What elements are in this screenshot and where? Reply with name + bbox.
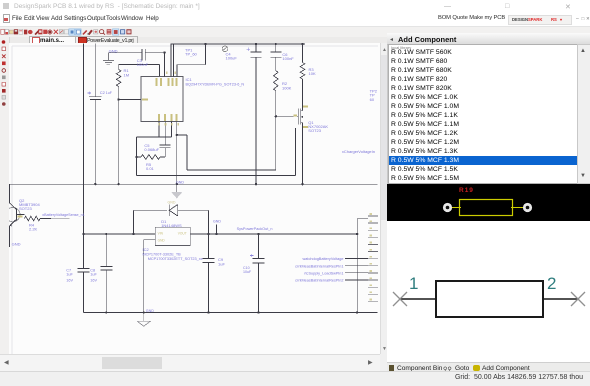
- footprint pad wire left: [451, 207, 461, 209]
- footprint pad wire right: [511, 207, 524, 209]
- net stub GND: [216, 225, 218, 235]
- capacitor C6: [270, 44, 281, 71]
- tab bar: [0, 37, 590, 44]
- toolbar: [0, 26, 590, 38]
- wire bottom rail: [83, 312, 377, 314]
- svg-text:10K: 10K: [309, 71, 316, 76]
- black pcb preview: [387, 184, 590, 221]
- svg-text:100K: 100K: [282, 85, 292, 90]
- panel bottom tabs: [387, 362, 590, 374]
- svg-text:0.01: 0.01: [146, 166, 155, 171]
- pin 2 wire: [543, 298, 579, 300]
- svg-text:0.068uF: 0.068uF: [144, 147, 159, 152]
- pad 2: [523, 203, 532, 212]
- wire vertical V2: [94, 44, 96, 185]
- IC1 left pin: [119, 99, 141, 101]
- svg-text:SysPowerPackOut_n: SysPowerPackOut_n: [237, 227, 273, 231]
- svg-text:R19: R19: [459, 187, 474, 194]
- capacitor C5: [160, 145, 171, 148]
- svg-text:1: 1: [409, 274, 418, 293]
- connector J1 pins: [368, 216, 378, 301]
- svg-text:GND: GND: [168, 201, 176, 205]
- pin 1 end cross: [393, 292, 407, 306]
- svg-text:IC2: IC2: [143, 247, 150, 252]
- svg-text:10uF: 10uF: [243, 270, 252, 274]
- IC2 body: [155, 227, 190, 245]
- symbol preview: [387, 221, 590, 362]
- svg-text:xChargerVoltageIn: xChargerVoltageIn: [342, 149, 375, 154]
- capacitor C8: [100, 234, 112, 313]
- svg-text:GND: GND: [12, 241, 21, 246]
- status bar: [0, 371, 590, 386]
- svg-text:GND: GND: [176, 180, 184, 184]
- svg-text:GND: GND: [213, 219, 221, 223]
- capacitor C4 polarized: [251, 44, 262, 184]
- svg-text:2.2K: 2.2K: [29, 227, 38, 232]
- resistor R3: [300, 63, 305, 80]
- resistor body: [436, 281, 543, 317]
- wire sense loop: [137, 137, 172, 176]
- svg-text:BQ2947XYDBVR-PG_SOT23-6_N: BQ2947XYDBVR-PG_SOT23-6_N: [186, 82, 245, 86]
- capacitor C10 polarized: [253, 234, 265, 313]
- svg-text:xBatteryVoltageSense_n1: xBatteryVoltageSense_n1: [42, 213, 84, 217]
- svg-text:2: 2: [547, 274, 556, 293]
- svg-text:1uF: 1uF: [90, 273, 97, 277]
- svg-text:MCP1700T3302ETT_SOT23_xx: MCP1700T3302ETT_SOT23_xx: [148, 257, 203, 261]
- svg-text:1N4148WS: 1N4148WS: [161, 223, 182, 228]
- footprint body: [460, 200, 513, 216]
- wire rail2: [83, 233, 358, 235]
- diode D1: [133, 210, 208, 234]
- wire IC2 gnd pin: [144, 239, 156, 312]
- svg-text:GND: GND: [109, 49, 118, 54]
- svg-text:SOT23: SOT23: [19, 206, 32, 211]
- svg-text:1uF: 1uF: [218, 261, 225, 266]
- svg-text:16V: 16V: [66, 279, 73, 283]
- testpoint TP1 circle: [222, 46, 228, 52]
- svg-text:1uF: 1uF: [66, 273, 73, 277]
- IC1 bottom pins: [159, 122, 177, 185]
- svg-text:TP_60: TP_60: [185, 52, 198, 57]
- h scrollbar: [0, 354, 380, 372]
- connector pin pads: [369, 213, 372, 300]
- ground G1 flat bars: [103, 53, 114, 65]
- svg-text:VIN: VIN: [158, 231, 164, 235]
- capacitor C1 series plates: [142, 49, 145, 61]
- title bar: [0, 0, 590, 11]
- transistor Q2 bjt: [6, 207, 20, 221]
- IC1 body: [141, 77, 183, 122]
- svg-text:VOUT: VOUT: [178, 231, 187, 235]
- canvas: [9, 43, 380, 354]
- canvas v scrollbar: [380, 43, 388, 354]
- svg-text:60: 60: [370, 97, 375, 102]
- svg-text:C2: C2: [100, 90, 106, 95]
- resistor R5 shunt: [141, 155, 160, 160]
- capacitor C7 plates: [77, 268, 89, 272]
- left vertical toolbar: [0, 37, 10, 354]
- svg-text:16V: 16V: [90, 279, 97, 283]
- svg-text:1uF: 1uF: [106, 91, 113, 95]
- capacitor C9: [203, 234, 215, 313]
- menu bar: [0, 11, 590, 26]
- ground G2 arrow: [176, 184, 178, 192]
- wire vertical V1 battery net: [82, 44, 84, 313]
- transistor Q1 mosfet: [276, 106, 303, 185]
- connector net wires: [345, 259, 368, 280]
- svg-text:SOT23: SOT23: [308, 128, 321, 133]
- wire top rail: [171, 43, 305, 45]
- svg-text:100nF: 100nF: [282, 56, 294, 61]
- ground G3 open triangle: [137, 313, 150, 327]
- page border: [12, 46, 378, 354]
- capacitor C2: [89, 97, 101, 100]
- svg-text:watchdogBatteryVoltage: watchdogBatteryVoltage: [303, 257, 344, 261]
- resistor R1: [116, 70, 121, 87]
- svg-text:100uF: 100uF: [226, 56, 238, 61]
- IC1 pads: [142, 72, 179, 126]
- svg-text:100nF: 100nF: [137, 62, 149, 67]
- resistor R4: [24, 216, 40, 221]
- pad 1: [443, 203, 452, 212]
- svg-text:rtcSupply_LoadSwPin1: rtcSupply_LoadSwPin1: [304, 271, 343, 275]
- wire rail1 gnd: [9, 183, 378, 185]
- svg-text:IC1: IC1: [186, 77, 193, 82]
- IC1 top pins: [165, 44, 206, 77]
- wire left gnd rail: [108, 52, 166, 54]
- resistor R2: [274, 71, 279, 91]
- pin 2 end cross: [571, 292, 585, 306]
- svg-text:crntMeasBatInternalResPin1: crntMeasBatInternalResPin1: [295, 264, 343, 268]
- wire branch to railA1: [177, 135, 276, 170]
- svg-text:GND: GND: [146, 309, 154, 313]
- svg-text:crntMeasBatInternalResPin2: crntMeasBatInternalResPin2: [295, 279, 343, 283]
- svg-text:GND: GND: [158, 238, 166, 242]
- pin 1 wire: [401, 298, 436, 300]
- svg-text:1M: 1M: [124, 73, 130, 78]
- right panel: [387, 33, 590, 373]
- connector J1 bus: [357, 219, 368, 313]
- transistor pads: [17, 105, 308, 217]
- wire railA2: [137, 128, 296, 176]
